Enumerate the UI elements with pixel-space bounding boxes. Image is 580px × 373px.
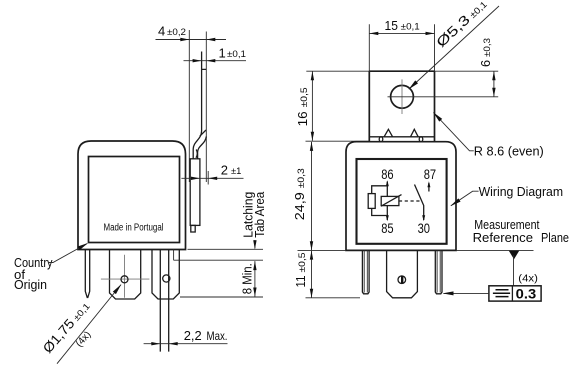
latching tab foot notch [191, 225, 195, 232]
svg-text:87: 87 [424, 166, 437, 182]
dimension 8 Min. [254, 261, 256, 296]
hole on blade 2 [163, 275, 170, 282]
latching tab left extension line [188, 30, 190, 182]
svg-text:Plane: Plane [541, 230, 569, 245]
body bottom extension left [298, 249, 347, 251]
label Latching Tab Area (rotated) [241, 192, 256, 238]
resistor R [368, 194, 375, 209]
crosshair centerlines for hole [101, 255, 149, 298]
leader Ø1,75 [57, 285, 121, 364]
coplanarity symbol [493, 290, 510, 297]
datum connector line [513, 255, 515, 286]
latching tab foot [190, 159, 200, 226]
terminal left blade (front view) [362, 250, 369, 293]
svg-text:86: 86 [381, 166, 394, 182]
bracket hole Ø5,3 [391, 85, 414, 108]
svg-text:4: 4 [158, 24, 165, 39]
svg-text:1: 1 [219, 46, 226, 61]
leader from frame to terminal [444, 292, 489, 294]
blade terminal 2 (side view) [152, 250, 179, 300]
svg-text:Made in Portugal: Made in Portugal [104, 223, 164, 234]
svg-text:±1: ±1 [231, 166, 241, 176]
relay body outline (side view) [78, 141, 186, 250]
coil line 86-85 [386, 182, 388, 221]
svg-text:(4x): (4x) [518, 272, 538, 284]
coil symbol [381, 196, 399, 205]
svg-text:Max.: Max. [207, 329, 228, 343]
svg-text:2,2: 2,2 [184, 328, 202, 343]
svg-text:Reference: Reference [473, 230, 533, 245]
wiring diagram box [357, 159, 447, 244]
bracket foot bump right [419, 137, 423, 142]
latching tab S-bend [193, 131, 201, 159]
leader Wiring Diagram [451, 191, 479, 206]
leader Ø5,3 [409, 6, 499, 89]
leader arrow latching tab area [254, 240, 256, 249]
label Ø1,75 ±0,1 [40, 299, 93, 356]
svg-text:±0,2: ±0,2 [167, 27, 186, 37]
bracket wedge left [384, 129, 393, 137]
terminal bottom extension line [180, 296, 263, 298]
feature control frame [489, 286, 541, 301]
latching tab area extension line 1 [188, 248, 264, 250]
relay label plate (side view inner rect) [89, 157, 180, 243]
latching tab area zone boundary [174, 249, 263, 260]
svg-text:Tab Area: Tab Area [252, 191, 267, 238]
leader R 8.6 [433, 113, 473, 151]
extension line bracket bottom left [306, 140, 370, 142]
terminal hole Ø1,75 [121, 276, 128, 283]
latching tab right edge line [205, 32, 207, 183]
bracket top extension line [306, 70, 498, 72]
svg-text:30: 30 [418, 220, 431, 236]
hole centerlines [401, 79, 403, 114]
svg-text:R 8.6 (even): R 8.6 (even) [474, 144, 544, 159]
label (4x) left [74, 329, 93, 349]
dimension 6 ±0,3 [493, 71, 495, 97]
pointed terminal pin (side view) [85, 250, 89, 298]
bracket foot bump left [379, 137, 383, 142]
relay body outline (front view) [346, 142, 456, 251]
center blade hole [398, 276, 406, 284]
terminal right blade (front view) [435, 250, 442, 293]
leader Country of Origin [48, 244, 87, 263]
blade terminal 1 (side view) [110, 250, 141, 300]
bracket wedge right [411, 129, 419, 137]
bracket seam line [369, 136, 434, 138]
dashed actuation link [399, 200, 420, 202]
terminal center blade (front view) [387, 250, 418, 297]
mounting bracket (front view) [369, 71, 434, 141]
svg-text:±0,1: ±0,1 [401, 22, 420, 32]
dimension 11 ±0,5 [311, 251, 313, 298]
dimension 16 ±0,5 [311, 71, 313, 141]
dimension 24,9 ±0,3 [311, 142, 313, 250]
measurement reference plane line [456, 249, 534, 251]
label Ø5,3 ±0,1 [433, 0, 489, 50]
svg-text:2: 2 [221, 163, 228, 178]
svg-text:85: 85 [381, 220, 394, 236]
pin 87 stub [428, 183, 430, 192]
svg-text:Wiring Diagram: Wiring Diagram [479, 184, 563, 199]
switch contact arm [415, 185, 424, 221]
datum triangle [509, 251, 519, 259]
terminal bottom extension left [306, 297, 361, 299]
svg-text:8 Min.: 8 Min. [239, 263, 254, 294]
thin middle terminal 2,2 (side view) [160, 250, 168, 352]
svg-text:0.3: 0.3 [516, 286, 537, 302]
svg-text:15: 15 [385, 18, 398, 33]
svg-text:Origin: Origin [14, 277, 47, 292]
svg-text:±0,1: ±0,1 [227, 49, 246, 59]
parallel resistor branch [372, 186, 388, 216]
latching tab thin blade (side view) [202, 52, 207, 132]
